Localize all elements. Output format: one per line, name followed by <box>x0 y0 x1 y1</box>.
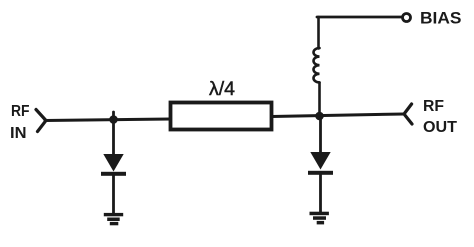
svg-text:λ/4: λ/4 <box>209 78 235 100</box>
svg-text:OUT: OUT <box>423 119 457 136</box>
svg-text:IN: IN <box>10 125 27 142</box>
svg-text:RF: RF <box>11 103 30 120</box>
svg-text:RF: RF <box>423 98 444 115</box>
svg-text:BIAS: BIAS <box>420 9 462 28</box>
